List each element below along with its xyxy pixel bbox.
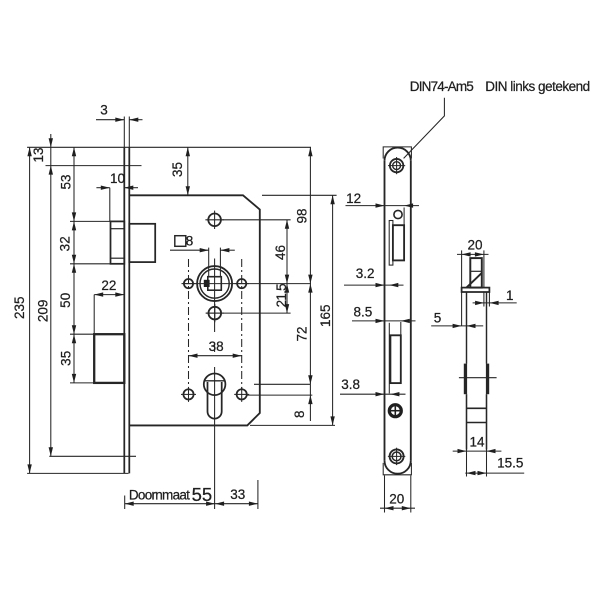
dimension 20 (right view top) xyxy=(457,238,489,257)
svg-text:10: 10 xyxy=(110,171,125,186)
center line column left (dash-dot) xyxy=(188,259,190,390)
left follower-row hole xyxy=(182,279,196,288)
svg-text:53: 53 xyxy=(58,174,73,189)
dimension 235 line xyxy=(12,147,32,473)
top screw hole xyxy=(205,211,223,229)
svg-text:1: 1 xyxy=(506,288,514,303)
svg-text:98: 98 xyxy=(294,208,309,223)
dimension 1 (right view) xyxy=(473,288,517,307)
svg-text:72: 72 xyxy=(294,326,309,341)
right follower-row hole xyxy=(235,279,249,288)
svg-text:3.2: 3.2 xyxy=(356,266,375,281)
svg-text:15.5: 15.5 xyxy=(497,456,523,471)
dimension 8.5 (middle view) xyxy=(352,304,416,335)
svg-text:235: 235 xyxy=(12,296,27,319)
svg-text:33: 33 xyxy=(230,487,245,502)
svg-text:Doornmaat: Doornmaat xyxy=(129,488,190,503)
svg-text:3: 3 xyxy=(100,103,108,118)
middle view thin square cap top xyxy=(383,147,411,159)
bottom-right hole xyxy=(234,387,249,402)
svg-text:5: 5 xyxy=(434,310,442,325)
svg-text:13: 13 xyxy=(31,147,46,162)
middle view black screw xyxy=(388,403,403,418)
svg-text:55: 55 xyxy=(192,484,213,505)
dimension 13 and 209 line xyxy=(31,134,53,456)
svg-text:3.8: 3.8 xyxy=(341,377,360,392)
dimension 12 (middle view) xyxy=(346,191,420,225)
dimension 14 (right view) xyxy=(453,435,502,477)
bottom dimension Doornmaat 55 / 33 xyxy=(125,480,258,509)
faceplate front/back edges (main view) xyxy=(124,117,129,474)
euro cylinder hole xyxy=(204,374,226,419)
latch bolt head xyxy=(111,221,125,263)
svg-text:DIN74-Am5: DIN74-Am5 xyxy=(410,79,474,94)
hole below follower xyxy=(206,304,224,322)
dimension 3.2 (middle view) xyxy=(344,266,404,287)
right view latch bolt section xyxy=(467,258,482,288)
svg-text:165: 165 xyxy=(318,304,333,327)
vertical centerline through follower and cylinder xyxy=(214,259,216,510)
right view neck walls xyxy=(467,292,487,364)
extension lines main view xyxy=(27,147,337,473)
dimension 72 xyxy=(294,284,312,385)
svg-text:35: 35 xyxy=(58,351,73,366)
dimension 3.8 (middle view) xyxy=(340,377,406,397)
dimension 5 (right view) xyxy=(431,310,483,328)
svg-text:46: 46 xyxy=(273,245,288,260)
svg-text:35: 35 xyxy=(170,162,185,177)
dimension 15.5 (right view) xyxy=(465,456,524,476)
dimension 35 upper right xyxy=(170,147,190,195)
dimension 3 (faceplate thickness) xyxy=(96,103,143,122)
svg-text:12: 12 xyxy=(346,191,361,206)
dimension 46 xyxy=(273,220,289,284)
dimension 38 (hole spacing) xyxy=(189,339,242,358)
svg-text:8: 8 xyxy=(186,234,194,249)
svg-text:22: 22 xyxy=(101,278,116,293)
svg-text:20: 20 xyxy=(467,238,482,253)
right view extension lines top xyxy=(462,250,484,325)
middle view latch cutout xyxy=(389,221,404,266)
dimension 98 xyxy=(294,147,312,283)
middle view faceplate outline xyxy=(385,148,411,474)
dimension 10 (latch protrusion) xyxy=(96,171,138,221)
dimension 20 (middle view bottom) xyxy=(380,476,415,513)
lock case outline xyxy=(129,195,259,425)
latch tail block xyxy=(129,224,155,262)
right view crossing line xyxy=(459,377,497,379)
right view lower walls and box xyxy=(467,394,487,449)
dimension 8 right xyxy=(292,384,313,421)
middle view bottom screw xyxy=(388,448,405,465)
middle view top screw xyxy=(388,157,405,174)
dimension 165 xyxy=(318,195,335,425)
svg-text:20: 20 xyxy=(389,492,404,507)
left chain dimension line 53/32/50/35 xyxy=(58,147,77,383)
center line column right (dash-dot) xyxy=(241,259,243,390)
dimension 21.5 xyxy=(274,283,289,313)
middle view thin square cap bottom xyxy=(383,463,411,475)
right view sleeve (thick walls) xyxy=(465,364,488,395)
right view faceplate band xyxy=(462,288,490,292)
middle view small round hole xyxy=(394,210,402,218)
svg-text:32: 32 xyxy=(58,236,73,251)
svg-text:50: 50 xyxy=(58,293,73,308)
svg-text:8: 8 xyxy=(292,411,307,419)
svg-text:209: 209 xyxy=(36,300,51,323)
svg-text:38: 38 xyxy=(209,339,224,354)
leader line to faceplate screw xyxy=(404,98,445,159)
bottom-left hole xyxy=(181,387,196,402)
deadbolt xyxy=(94,334,124,383)
dimension 22 (deadbolt protrusion) xyxy=(94,278,124,334)
middle view deadbolt cutout xyxy=(389,323,401,394)
svg-text:14: 14 xyxy=(469,435,485,450)
svg-text:8.5: 8.5 xyxy=(354,304,373,319)
svg-text:DIN links getekend: DIN links getekend xyxy=(485,79,590,94)
square-8 label and dimension xyxy=(170,234,235,277)
follower hub xyxy=(197,266,232,301)
svg-text:21.5: 21.5 xyxy=(274,283,289,307)
